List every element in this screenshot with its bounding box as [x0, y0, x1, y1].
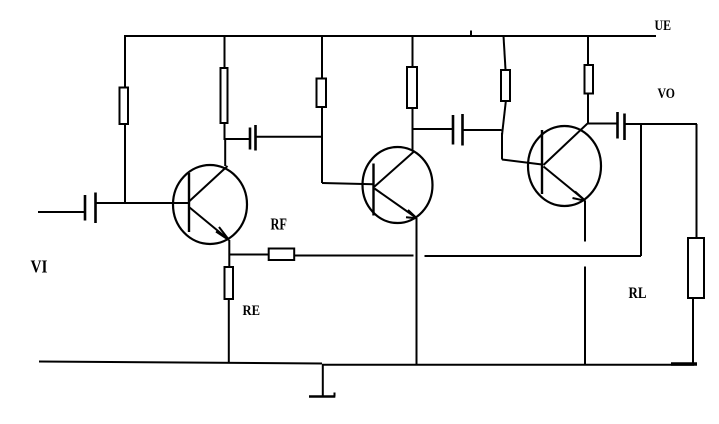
wire R6 to Q3 collector node	[587, 94, 589, 125]
wire rail stub tick	[470, 31, 472, 38]
resistor R4	[407, 67, 417, 108]
capacitor C4	[618, 112, 625, 140]
resistor R3	[317, 79, 327, 108]
wire Q1 collector up	[224, 140, 226, 166]
svg-text:VI: VI	[31, 257, 48, 277]
transistor Q2	[363, 147, 433, 223]
capacitor C3	[453, 114, 463, 146]
ground rail right	[322, 364, 694, 366]
wire output to RL	[696, 124, 698, 238]
wire rail to R5	[504, 36, 506, 70]
wire R3 to Q2 base node	[321, 108, 323, 184]
wire R4 to Q2 collector	[412, 109, 414, 152]
wire rail to R3	[321, 36, 323, 78]
wire rail to R1	[124, 36, 126, 87]
transistor Q1	[173, 165, 247, 244]
resistor R5	[501, 70, 510, 101]
wire node to Q2 base	[322, 183, 374, 184]
wire Q3 emitter upper segment	[584, 201, 586, 242]
wire rail to R2	[224, 36, 226, 68]
resistor RL	[688, 238, 704, 298]
capacitor C1	[85, 193, 96, 224]
capacitor C2	[250, 125, 256, 151]
ground	[309, 365, 335, 397]
wire node to C3	[413, 128, 453, 130]
wire C4 to output	[625, 123, 698, 125]
wire input stub	[38, 211, 84, 213]
svg-text:RL: RL	[629, 285, 647, 302]
wire C2 to R3 column	[256, 136, 323, 138]
svg-text:UE: UE	[655, 18, 672, 34]
wire node to C2	[225, 138, 250, 140]
wire emitter node to RF	[229, 254, 268, 256]
ground rail left	[39, 362, 322, 364]
wire node to C4	[588, 123, 617, 125]
wire feedback drop	[640, 124, 642, 256]
svg-text:VO: VO	[658, 86, 676, 102]
wire R5 down to node	[502, 102, 506, 136]
resistor RE	[225, 267, 234, 299]
resistor R6	[585, 65, 594, 94]
wire node down	[501, 133, 503, 160]
wire C3 to Q3 base node	[463, 129, 502, 131]
svg-text:RF: RF	[271, 215, 288, 234]
svg-text:RE: RE	[243, 303, 261, 319]
wire Q2 emitter to ground rail	[416, 218, 418, 364]
wire node to Q3 base	[502, 160, 542, 165]
wire Q3 emitter lower segment	[584, 267, 586, 366]
wire RL to ground rail	[692, 299, 694, 366]
transistor Q3	[528, 124, 601, 207]
wire rail to R4	[412, 36, 414, 67]
resistor R2	[221, 68, 228, 123]
wire R1 to input node	[124, 125, 126, 203]
wire RF to feedback line left	[295, 255, 414, 257]
resistor R1	[120, 88, 129, 125]
wire Q1 emitter down to RE	[228, 240, 230, 268]
resistor RF	[269, 249, 295, 261]
power rail UE	[124, 35, 656, 37]
ground rail thick joint	[671, 362, 697, 366]
wire R2 to C2 node	[224, 124, 226, 141]
wire C1 to Q1 base	[96, 202, 189, 204]
wire RE to ground rail	[228, 300, 230, 364]
wire rail to R6	[587, 36, 589, 65]
wire feedback line right	[425, 255, 642, 257]
